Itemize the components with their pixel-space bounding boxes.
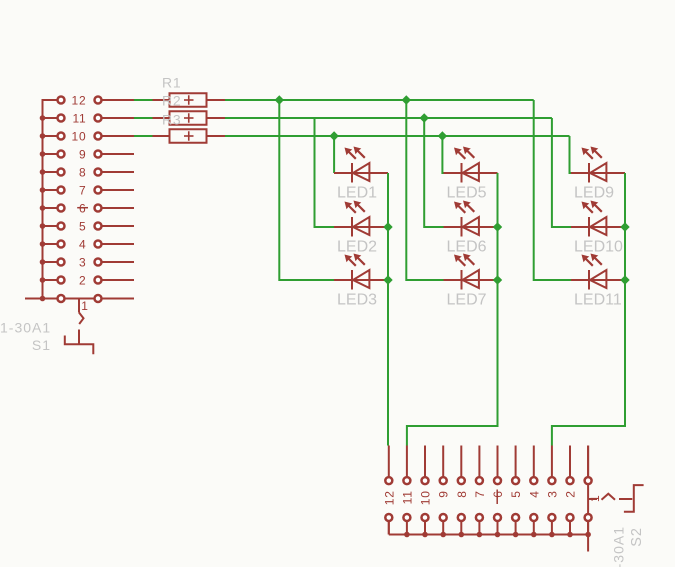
LED LED11 cathode bar [588, 270, 590, 290]
junction LED2 cathode [383, 222, 392, 231]
LED LED10 light arrow 1 [582, 202, 590, 210]
LED LED7 light arrow 1 [454, 255, 462, 263]
LED LED6 anode wire [444, 226, 498, 228]
S1 pad 8 left [58, 169, 65, 176]
junction on S1 bus row 7 [40, 187, 46, 193]
junction on S1 bus row 8 [40, 169, 46, 175]
S2 row 10 top pin wire [424, 446, 426, 481]
S2 row 10 bottom pin wire [424, 518, 426, 535]
S2 pad 9 top [440, 477, 447, 484]
S2 pad 10 top [422, 477, 429, 484]
LED LED9 triangle [590, 163, 606, 181]
wire rail A drop to LED7 [406, 100, 443, 280]
svg-text:12: 12 [382, 490, 396, 505]
S1 row 8 left pin wire [43, 171, 62, 173]
S2 row 8 top pin wire [460, 446, 462, 481]
S2 row 9 top pin wire [442, 446, 444, 481]
LED LED3 anode wire [334, 279, 388, 281]
svg-text:LED1: LED1 [337, 185, 377, 202]
svg-text:1-30A1: 1-30A1 [611, 526, 627, 567]
S2 pad 2 top [567, 477, 574, 484]
S2 pad 5 top [512, 477, 519, 484]
LED LED7 light arrow 2 [463, 254, 471, 262]
svg-text:5: 5 [509, 490, 523, 497]
svg-text:LED10: LED10 [574, 239, 623, 256]
junction rail B / LED6 drop [420, 113, 429, 122]
junction on S1 bus row 11 [40, 115, 46, 121]
LED LED5 cathode bar [461, 163, 463, 183]
LED LED7 triangle [463, 270, 479, 288]
S2 row 2 bottom pin wire [569, 518, 571, 535]
wire rail B drop to LED2 [315, 118, 335, 227]
net rail from R2 (row B) [225, 117, 552, 119]
S1 pad 2 right [95, 277, 102, 284]
svg-text:9: 9 [437, 490, 451, 497]
LED LED1 light arrow 1 [345, 148, 353, 156]
S1 row 10 left pin wire [43, 135, 62, 137]
LED LED10 cathode bar [588, 217, 590, 237]
S1 pad 9 left [58, 151, 65, 158]
junction on S1 bus row 3 [40, 259, 46, 265]
S2 pad 6 top [494, 477, 501, 484]
S2 row 7 top pin wire [478, 446, 480, 481]
svg-text:4: 4 [527, 490, 541, 497]
junction rail C / LED1 drop [329, 131, 338, 140]
wire rail A drop to LED3 [279, 100, 334, 280]
junction on S2 bus row 2 [567, 532, 573, 538]
S2 pad 5 bottom [512, 514, 519, 521]
S1 row 9 left pin wire [43, 153, 62, 155]
junction on S2 bus row 8 [459, 532, 465, 538]
LED LED2 triangle [353, 217, 369, 235]
S2 pin bus wire [389, 534, 588, 536]
S2 row 5 bottom pin wire [515, 518, 517, 535]
LED LED1 cathode bar [351, 163, 353, 183]
junction on S1 bus row 2 [40, 277, 46, 283]
junction on S2 bus row 4 [531, 532, 537, 538]
S1 row 7 left pin wire [43, 189, 62, 191]
junction LED11 cathode [620, 275, 629, 284]
cathode column wire LED5-LED7 to S2 pin 11 [407, 173, 498, 446]
resistor R3 body [170, 129, 207, 143]
svg-text:LED5: LED5 [447, 185, 487, 202]
junction on S2 bus row 9 [440, 532, 446, 538]
svg-text:R3: R3 [162, 112, 182, 128]
S1 row 4 left pin wire [43, 243, 62, 245]
wire rail C drop to LED1 [333, 136, 335, 173]
S1 row 6 left pin wire [43, 207, 62, 209]
S1 pad 2 left [58, 277, 65, 284]
svg-text:2: 2 [79, 273, 86, 287]
S1 pad 3 left [58, 259, 65, 266]
S1 pad 5 right [95, 223, 102, 230]
S1 pad 7 right [95, 187, 102, 194]
S1 pad 9 right [95, 151, 102, 158]
cathode column wire LED1-LED3 to S2 pin 12 [387, 173, 389, 446]
jumper S2 lead wire [588, 498, 597, 500]
resistor R2 left pin [153, 117, 170, 119]
S2 pin 1 through wire [587, 446, 589, 535]
S1 pad 1 right [95, 295, 102, 302]
svg-text:S1: S1 [32, 337, 51, 353]
S1 pad 12 right [95, 97, 102, 104]
wire stub left of S1 pin 1 [25, 298, 43, 300]
S2 row 2 top pin wire [569, 446, 571, 481]
LED LED10 anode wire [571, 226, 625, 228]
LED LED3 cathode bar [351, 270, 353, 290]
LED LED3 light arrow 1 [345, 255, 353, 263]
svg-text:LED9: LED9 [574, 185, 614, 202]
resistor R1 left pin [153, 99, 170, 101]
LED LED9 light arrow 2 [591, 147, 599, 155]
S2 pad 1 bottom [585, 514, 592, 521]
S2 pad 10 bottom [422, 514, 429, 521]
S2 row 12 bottom pin wire [388, 518, 390, 535]
net rail from R1 (row A) [225, 99, 534, 101]
S2 row 12 top pin wire [388, 446, 390, 481]
S2 row 1 top pin wire [587, 446, 589, 481]
S2 pad 11 bottom [403, 514, 410, 521]
svg-text:8: 8 [455, 490, 469, 497]
LED LED1 triangle [353, 163, 369, 181]
S2 row 7 bottom pin wire [478, 518, 480, 535]
svg-text:10: 10 [419, 490, 433, 505]
S1 row 1 pin wire [43, 298, 135, 300]
green wire from S1 to resistor R3 [134, 135, 153, 137]
S2 pad 6 bottom [494, 514, 501, 521]
svg-text:LED11: LED11 [574, 292, 622, 309]
junction on S1 bus row 4 [40, 241, 46, 247]
svg-text:R2: R2 [162, 92, 182, 108]
S1 pad 6 right [95, 205, 102, 212]
S2 pad 4 bottom [530, 514, 537, 521]
S2 row 8 bottom pin wire [460, 518, 462, 535]
S2 pad 3 bottom [548, 514, 555, 521]
S1 pad 6 left [58, 205, 65, 212]
S1 pad 8 right [95, 169, 102, 176]
S2 row 11 bottom pin wire [406, 518, 408, 535]
LED LED11 light arrow 1 [582, 255, 590, 263]
green wire from S1 to resistor R2 [134, 117, 153, 119]
S1 row 11 right pin wire [98, 117, 134, 119]
LED LED5 light arrow 2 [463, 147, 471, 155]
svg-text:LED3: LED3 [337, 292, 377, 309]
S1 row 5 right pin wire [98, 225, 134, 227]
LED LED2 cathode bar [351, 217, 353, 237]
jumper S2 zigzag contact [602, 494, 616, 500]
junction on S1 bus row 9 [40, 151, 46, 157]
S1 pad 10 left [58, 133, 65, 140]
junction rail A / LED3 drop [275, 95, 284, 104]
svg-text:3: 3 [545, 490, 559, 497]
connector S1 pin bus wire [42, 99, 44, 299]
svg-text:R1: R1 [162, 74, 182, 90]
svg-text:11: 11 [400, 490, 414, 504]
junction on S2 bus row 10 [422, 532, 428, 538]
junction on S2 bus row 7 [477, 532, 483, 538]
cathode column wire LED9-LED11 to S2 pin 3 [552, 173, 625, 446]
resistor R1 right pin [207, 99, 226, 101]
S1 row 5 left pin wire [43, 225, 62, 227]
net rail from R3 (row C) [225, 135, 570, 137]
wire rail B drop to LED10 [552, 118, 571, 227]
S1 row 10 right pin wire [98, 135, 134, 137]
svg-text:11: 11 [72, 111, 86, 125]
S1 pad 10 right [95, 133, 102, 140]
LED LED1 anode wire [334, 172, 388, 174]
S1 pad 12 left [58, 97, 65, 104]
wire rail C drop to LED5 [442, 136, 443, 173]
svg-text:2: 2 [564, 490, 578, 497]
svg-text:LED7: LED7 [447, 292, 487, 309]
S2 pad 4 top [530, 477, 537, 484]
strike mark over S2 pin number 6 [496, 490, 498, 505]
LED LED3 triangle [353, 270, 369, 288]
svg-text:4: 4 [79, 237, 86, 251]
LED LED2 light arrow 1 [345, 202, 353, 210]
S2 bus corner to pad 12 [388, 518, 390, 535]
S2 pad 12 bottom [385, 514, 392, 521]
S2 pad 11 top [403, 477, 410, 484]
S1 row 9 right pin wire [98, 153, 134, 155]
junction rail A / LED7 drop [402, 95, 411, 104]
green wire from S1 to resistor R1 [134, 99, 153, 101]
strike mark over pin number 6 [77, 207, 88, 209]
S1 pad 4 right [95, 241, 102, 248]
jumper S1 zigzag contact [79, 313, 84, 325]
LED LED6 light arrow 2 [463, 201, 471, 209]
S1 row 11 left pin wire [43, 117, 62, 119]
LED LED6 triangle [463, 217, 479, 235]
S1 pad 1 left [58, 295, 65, 302]
svg-text:5: 5 [79, 219, 86, 233]
LED LED7 anode wire [444, 279, 498, 281]
svg-text:8: 8 [79, 165, 86, 179]
S2 row 11 top pin wire [406, 446, 408, 481]
wire rail B drop to LED6 [424, 118, 443, 227]
S2 row 6 bottom pin wire [497, 518, 499, 535]
resistor R2 body [170, 111, 207, 125]
S2 row 1 bottom pin wire [587, 518, 589, 535]
S2 pad 12 top [385, 477, 392, 484]
junction on S1 bus row 10 [40, 133, 46, 139]
S2 row 3 bottom pin wire [551, 518, 553, 535]
resistor R2 plus mark [184, 117, 194, 119]
S2 row 9 bottom pin wire [442, 518, 444, 535]
resistor R1 plus mark [184, 99, 194, 101]
jumper S1 lead wire lower [78, 330, 80, 344]
junction on S2 bus row 6 [495, 532, 501, 538]
junction on S2 bus row 5 [513, 532, 519, 538]
S2 pad 2 bottom [567, 514, 574, 521]
svg-text:6: 6 [491, 490, 505, 497]
LED LED1 light arrow 2 [354, 147, 362, 155]
LED LED9 light arrow 1 [582, 148, 590, 156]
resistor R1 body [170, 93, 207, 107]
LED LED5 light arrow 1 [454, 148, 462, 156]
jumper S1 lead wire [78, 299, 80, 313]
wire rail C drop to LED9 [570, 136, 572, 173]
LED LED9 cathode bar [588, 163, 590, 183]
resistor R2 right pin [207, 117, 226, 119]
LED LED11 light arrow 2 [591, 254, 599, 262]
junction LED10 cathode [620, 222, 629, 231]
S1 row 2 right pin wire [98, 279, 134, 281]
svg-text:LED2: LED2 [337, 239, 377, 256]
LED LED2 anode wire [334, 226, 388, 228]
junction on S2 bus row 11 [404, 532, 410, 538]
LED LED11 triangle [590, 270, 606, 288]
S1 row 3 right pin wire [98, 261, 134, 263]
svg-text:12: 12 [72, 93, 87, 107]
S2 pad 8 bottom [458, 514, 465, 521]
S1 row 4 right pin wire [98, 243, 134, 245]
svg-text:9: 9 [79, 147, 86, 161]
S2 row 6 top pin wire [497, 446, 499, 481]
svg-text:S2: S2 [629, 527, 645, 547]
LED LED9 anode wire [571, 172, 625, 174]
junction on S2 bus row 1 [585, 532, 591, 538]
S2 pad 1 top [585, 477, 592, 484]
svg-text:1: 1 [81, 299, 88, 313]
resistor R3 right pin [207, 135, 226, 137]
S2 row 4 bottom pin wire [533, 518, 535, 535]
svg-text:LED6: LED6 [447, 239, 487, 256]
S1 row 2 left pin wire [43, 279, 62, 281]
S1 row 3 left pin wire [43, 261, 62, 263]
S1 row 7 right pin wire [98, 189, 134, 191]
S2 row 5 top pin wire [515, 446, 517, 481]
S1 row 8 right pin wire [98, 171, 134, 173]
jumper S2 lead wire right [619, 498, 632, 500]
S1 pad 5 left [58, 223, 65, 230]
LED LED5 anode wire [444, 172, 498, 174]
S2 pad 7 bottom [476, 514, 483, 521]
S1 row 12 right pin wire [98, 99, 134, 101]
junction LED3 cathode [383, 275, 392, 284]
junction on S2 bus row 3 [549, 532, 555, 538]
junction on S1 bus row 1 [40, 296, 46, 302]
S2 row 4 top pin wire [533, 446, 535, 481]
svg-text:3: 3 [79, 255, 86, 269]
LED LED2 light arrow 2 [354, 201, 362, 209]
jumper S2 bracket contact [624, 485, 644, 512]
S2 pad 8 top [458, 477, 465, 484]
svg-text:7: 7 [473, 490, 487, 497]
S1 pad 11 left [58, 115, 65, 122]
S1 row 12 left pin wire [43, 99, 62, 101]
LED LED10 light arrow 2 [591, 201, 599, 209]
S1 row 6 right pin wire [98, 207, 134, 209]
S1 pad 4 left [58, 241, 65, 248]
LED LED5 triangle [463, 163, 479, 181]
S2 pad 9 bottom [440, 514, 447, 521]
resistor R3 left pin [153, 135, 170, 137]
S1 pad 3 right [95, 259, 102, 266]
S1 pad 11 right [95, 115, 102, 122]
junction rail C / LED5 drop [438, 131, 447, 140]
S1 pad 7 left [58, 187, 65, 194]
junction on S1 bus row 6 [40, 205, 46, 211]
svg-text:7: 7 [79, 183, 86, 197]
jumper S1 bracket contact [65, 336, 94, 355]
junction on S1 bus row 5 [40, 223, 46, 229]
S2 row 3 top pin wire [551, 446, 553, 481]
svg-text:10: 10 [72, 129, 87, 143]
resistor R3 plus mark [184, 135, 194, 137]
S2 bus tail below pin 1 [587, 535, 589, 552]
S2 pad 7 top [476, 477, 483, 484]
LED LED7 cathode bar [461, 270, 463, 290]
LED LED3 light arrow 2 [354, 254, 362, 262]
LED LED6 cathode bar [461, 217, 463, 237]
svg-text:1-30A1: 1-30A1 [0, 320, 51, 336]
junction LED6 cathode [493, 222, 502, 231]
LED LED6 light arrow 1 [454, 202, 462, 210]
S2 pad 3 top [548, 477, 555, 484]
LED LED11 anode wire [571, 279, 625, 281]
wire rail A drop to LED11 [534, 100, 571, 280]
junction LED7 cathode [493, 275, 502, 284]
LED LED10 triangle [590, 217, 606, 235]
